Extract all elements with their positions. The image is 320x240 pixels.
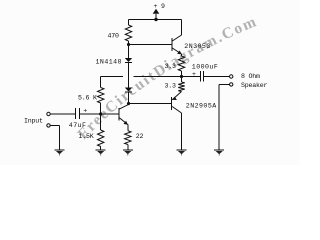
resistor R5 3.3 top	[178, 56, 184, 71]
svg-text:Input: Input	[24, 117, 43, 124]
svg-text:8 Ohm: 8 Ohm	[241, 73, 260, 80]
capacitor C2 1000uF	[199, 71, 201, 82]
svg-text:+ 9: + 9	[154, 3, 166, 10]
resistor R2 5.6K	[98, 88, 104, 104]
resistor R6 3.3 bottom	[181, 77, 183, 83]
wire to diode D1	[128, 45, 130, 59]
+9V supply arrow	[153, 9, 160, 14]
svg-text:Speaker: Speaker	[241, 82, 268, 89]
wire base Q2	[129, 44, 172, 46]
svg-text:2N3053: 2N3053	[184, 43, 210, 50]
resistor R3 1.5K	[98, 130, 104, 147]
wire rail to R 470	[128, 20, 130, 26]
svg-text:2N2905A: 2N2905A	[186, 102, 217, 109]
wire node B to base Q3	[129, 103, 172, 105]
ground 22	[123, 149, 133, 151]
input terminal top	[47, 112, 50, 115]
diode D2	[125, 88, 132, 92]
wire node A to R 1.5K	[100, 114, 102, 130]
wire feedback left part	[101, 76, 123, 78]
wire Q3 collector to ground	[181, 113, 183, 150]
svg-text:22: 22	[136, 133, 144, 140]
resistor R4 22	[125, 131, 131, 145]
diode D1 1N4148	[125, 58, 132, 62]
wire input to C1	[50, 113, 75, 115]
ground speaker	[214, 149, 224, 151]
wire D1 to D2	[128, 63, 130, 88]
wire speaker to ground	[219, 83, 229, 85]
transistor Q1	[118, 108, 120, 120]
wire corner to R 5.6K	[100, 77, 102, 88]
wire Q1 emitter to R 22	[127, 125, 129, 131]
input terminal bottom	[47, 124, 50, 127]
transistor Q3 2N2905A	[171, 97, 173, 110]
svg-text:3.3: 3.3	[165, 83, 177, 90]
wire C1 to node A	[80, 113, 101, 115]
wire C2 to speaker	[203, 76, 229, 78]
svg-text:+: +	[83, 107, 87, 114]
resistor R1 470	[125, 25, 131, 41]
ground 1.5K	[96, 149, 106, 151]
transistor Q2 2N3053	[171, 38, 173, 51]
ground input	[55, 149, 65, 151]
wire output to C2	[182, 76, 201, 78]
junction dot output node	[180, 75, 183, 78]
wire D2 to node B	[128, 93, 130, 104]
svg-text:1000uF: 1000uF	[192, 64, 218, 71]
svg-text:5.6 K: 5.6 K	[78, 94, 97, 101]
svg-text:47uF: 47uF	[69, 122, 87, 129]
speaker terminal bottom	[230, 83, 233, 86]
svg-text:+: +	[192, 71, 196, 78]
svg-text:3.3: 3.3	[165, 63, 177, 70]
wire top rail	[129, 19, 182, 21]
svg-text:1.5K: 1.5K	[79, 133, 94, 140]
svg-text:470: 470	[108, 33, 120, 40]
junction dot 470/base Q2	[127, 43, 130, 46]
junction dot supply	[154, 18, 157, 21]
wire Q2 collector	[181, 20, 183, 36]
ground Q3	[177, 149, 187, 151]
wire Q2 emitter	[181, 54, 183, 56]
wire input ground	[50, 124, 59, 126]
junction dot node B	[127, 102, 130, 105]
junction dot node A	[99, 112, 102, 115]
speaker terminal top	[230, 75, 233, 78]
wire node A to base Q1	[101, 113, 119, 115]
svg-text:1N4148: 1N4148	[96, 59, 122, 66]
capacitor C1 47uF	[75, 108, 77, 119]
wire feedback right part	[134, 76, 182, 78]
